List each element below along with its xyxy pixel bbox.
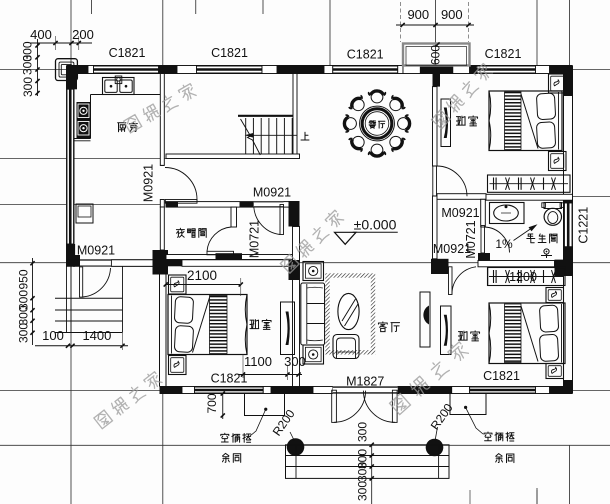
svg-text:1100: 1100 xyxy=(244,354,272,369)
sofa end table south xyxy=(303,345,324,364)
AC board left xyxy=(245,394,285,416)
dresser BR xyxy=(441,306,452,355)
kitchen right wall lower stub xyxy=(160,200,164,208)
door M1827 double entry xyxy=(332,390,337,422)
wall black segment top 158.5-177 xyxy=(159,66,178,74)
bedroom-BR top wall black E xyxy=(555,260,573,276)
wall pad bottom 451.7-469.6 xyxy=(452,387,470,394)
svg-text:M0721: M0721 xyxy=(248,220,262,258)
dim 100/1400 bottom-left xyxy=(35,345,128,347)
svg-text:300: 300 xyxy=(21,77,35,97)
TV cabinet living xyxy=(420,292,430,347)
closet BR xyxy=(488,268,566,286)
svg-text:900: 900 xyxy=(441,7,463,22)
svg-text:C1821: C1821 xyxy=(485,47,522,61)
kitchen stove xyxy=(77,102,91,139)
door M0721 bathroom xyxy=(481,226,485,254)
svg-text:C1821: C1821 xyxy=(109,46,146,60)
entry porch steps xyxy=(286,445,450,479)
label yimaojian (cloakroom) xyxy=(176,228,184,237)
label weishengjian (bathroom) xyxy=(527,234,535,243)
svg-text:300: 300 xyxy=(17,323,31,343)
door M1827 threshold lines xyxy=(333,387,398,394)
rain pipe R200 left xyxy=(287,438,305,456)
svg-text:400: 400 xyxy=(30,27,52,42)
window C1821 kitchen top xyxy=(94,66,159,74)
wall pad top 262-277 xyxy=(262,66,277,74)
svg-text:300: 300 xyxy=(356,481,370,501)
wall hollow 111.4-155 side xyxy=(111,260,155,267)
bathroom left wall upper xyxy=(481,199,486,227)
svg-text:M1827: M1827 xyxy=(346,375,384,389)
svg-text:600: 600 xyxy=(429,45,443,65)
nightstand BR-N xyxy=(546,288,564,303)
grid line vertical x=569.5 xyxy=(569,0,571,66)
svg-text:±0.000: ±0.000 xyxy=(354,217,397,233)
grid line vertical x=71 xyxy=(70,0,72,504)
outdoor steps left side (950/300 steps) xyxy=(66,266,68,332)
label woshi BL xyxy=(250,320,259,329)
svg-text:900: 900 xyxy=(407,7,429,22)
wall black segment top 469.5-477 xyxy=(470,66,478,74)
label kongtiaoban right xyxy=(484,432,492,441)
svg-text:M0921: M0921 xyxy=(253,186,291,200)
cloakroom top wall black 239.5-253.8 xyxy=(240,202,254,208)
wall black T-column at bay xyxy=(420,66,453,74)
coffee table oval xyxy=(338,293,359,329)
stairs up arrow xyxy=(252,134,297,136)
bedroom-BL left wall xyxy=(159,266,161,386)
grid line horizontal F y=445.3 xyxy=(0,444,610,446)
kitchen counter edge xyxy=(91,94,161,96)
svg-text:200: 200 xyxy=(72,27,94,42)
wall black bottom 159.5-182 xyxy=(160,387,183,394)
dim 900/900 top bay xyxy=(396,24,474,26)
svg-text:2100: 2100 xyxy=(187,268,217,283)
bedroom-BL top wall hollow 182-299.5 xyxy=(182,260,300,267)
dining-bedroom wall x=432.5-437 xyxy=(433,87,438,166)
window C1821 bedroom-BR bottom xyxy=(470,387,536,394)
stairs break line xyxy=(241,119,261,155)
svg-text:M0721: M0721 xyxy=(464,220,478,258)
sofa end table north xyxy=(303,262,324,281)
window left wall kitchen xyxy=(67,89,75,244)
rug with hatched border xyxy=(328,276,374,353)
nightstand TR-N xyxy=(549,74,567,93)
svg-text:1400: 1400 xyxy=(82,328,111,343)
wall black segment top 277-324 xyxy=(277,66,324,74)
bathroom top wall xyxy=(486,194,573,200)
right exterior wall band outline xyxy=(563,74,565,394)
label yutong left xyxy=(223,453,230,462)
porch dim 300x4 xyxy=(371,445,373,504)
wall pad top 535.5-549.5 xyxy=(536,66,550,74)
wall black corner top-right xyxy=(550,66,573,74)
wall black pier left 244-267 xyxy=(67,244,76,266)
grid line vertical x=435.5 xyxy=(435,0,437,66)
bottom exterior wall band outline xyxy=(160,386,573,388)
label canting (dining) xyxy=(369,121,376,128)
svg-text:300: 300 xyxy=(17,305,31,325)
bay dim tick xyxy=(435,42,439,46)
bathroom toilet xyxy=(544,203,562,209)
window C1221 bathroom right wall xyxy=(564,203,573,247)
door M0921 hall xyxy=(280,205,284,235)
bottom edge tick stubs xyxy=(469,490,471,504)
bedroom-TR bottom wall xyxy=(437,194,486,200)
side door M0921 threshold xyxy=(80,260,111,267)
sofa 3-seat xyxy=(301,283,325,345)
closet BR dim 1200 xyxy=(489,276,564,278)
wall black right 194-203 xyxy=(564,194,573,203)
cloakroom left wall xyxy=(160,207,164,250)
wall black right 66-96 xyxy=(564,74,573,97)
grid line vertical x=330 xyxy=(329,0,331,66)
label chufang (kitchen) xyxy=(118,123,126,132)
watermark 4 xyxy=(93,370,163,429)
dim 300x3 left upper xyxy=(37,39,39,96)
grid line vertical x=537 xyxy=(536,0,538,66)
door M0721 cloakroom xyxy=(207,251,234,255)
door M0921 side entry xyxy=(80,267,83,297)
dim 400/200 top-left xyxy=(30,42,92,44)
wall pad bottom 182-194.5 xyxy=(182,387,195,394)
living west wall xyxy=(293,227,300,387)
bed BL xyxy=(168,295,247,355)
wall black bottom 397.75-451.7 xyxy=(398,387,452,394)
kitchen faucet xyxy=(115,76,122,84)
dim 2100 bedroom BL xyxy=(166,284,241,286)
dining table with 8 chairs xyxy=(360,106,395,141)
svg-text:950: 950 xyxy=(17,269,31,289)
closet TR xyxy=(488,175,571,192)
kitchen appliance (washer) xyxy=(76,204,93,223)
window C1821 dining top xyxy=(333,66,398,74)
left exterior wall band outline xyxy=(66,66,68,268)
label woshi TR xyxy=(456,116,465,125)
wall black side-door corner 66.5-80 xyxy=(67,260,81,267)
cloakroom top wall black 165.5-178 xyxy=(166,202,179,208)
label shang (up) xyxy=(301,132,309,140)
dresser TR xyxy=(441,99,451,147)
svg-text:1200: 1200 xyxy=(509,270,537,284)
wall pad top 324-332.75 xyxy=(324,66,333,74)
grid line horizontal C-left y=204.5 xyxy=(0,204,163,206)
door M0921 bedroom TR xyxy=(433,166,437,196)
watermark 2 xyxy=(431,62,493,129)
bay opening pad 452.8-469.5 xyxy=(453,66,470,74)
dim 1100/300 bedroom BL bottom xyxy=(238,374,302,376)
corner column top-left (black L) xyxy=(67,66,78,90)
hall column SE xyxy=(431,259,449,274)
door M0921 kitchen xyxy=(165,200,197,204)
dresser BL xyxy=(281,302,295,355)
dim 950/300x3 left lower xyxy=(32,258,34,345)
svg-text:100: 100 xyxy=(42,328,64,343)
window C1821 stairwell top xyxy=(197,66,263,74)
cloakroom top wall xyxy=(166,202,290,208)
grid line horizontal A y=69.5 xyxy=(0,69,610,71)
svg-text:M0921: M0921 xyxy=(441,206,479,220)
grid line vertical stub x=91.5 xyxy=(91,0,93,14)
cloakroom bottom wall black chunk xyxy=(216,253,243,259)
svg-text:C1221: C1221 xyxy=(577,207,591,244)
grid line horizontal E y=390.5 xyxy=(0,390,610,392)
cloakroom bottom wall xyxy=(166,255,300,260)
grid line horizontal D y=262.7 xyxy=(0,262,610,264)
wall pad bottom 263.25-271 xyxy=(263,387,271,394)
bed TR xyxy=(489,91,562,151)
wall black stub 168-182 xyxy=(168,258,182,266)
kitchen sink unit xyxy=(103,78,135,95)
grid line horizontal B y=158.5 xyxy=(0,158,166,160)
svg-text:300: 300 xyxy=(356,462,370,482)
corner column black L in callout xyxy=(67,66,88,73)
central column xyxy=(289,201,300,227)
bedroom-BR top wall xyxy=(478,261,555,267)
nightstand BL-N xyxy=(169,275,187,294)
wall pad top 397.75-403 xyxy=(398,66,403,74)
label woshi BR xyxy=(458,331,467,340)
floor drain xyxy=(544,249,549,254)
kitchen door M0921 opening jambs xyxy=(160,164,164,166)
bottom-left wall band y=260-266 outline xyxy=(67,259,169,261)
wall pad top 177-196.5 xyxy=(177,66,197,74)
extension line dashed x=400.5 xyxy=(400,2,402,42)
label kongtiaoban left xyxy=(221,433,229,442)
nightstand BL-S xyxy=(169,356,187,375)
watermark 1 xyxy=(123,82,197,133)
svg-text:C1821: C1821 xyxy=(483,369,520,383)
window C1821 bedroom top xyxy=(477,66,536,74)
kitchen right wall upper xyxy=(160,74,164,166)
armchair xyxy=(333,335,359,359)
svg-text:M0921: M0921 xyxy=(77,244,115,258)
nightstand TR-S xyxy=(549,152,567,171)
bathroom left wall black bottom xyxy=(478,253,490,261)
nightstand BR-S xyxy=(546,364,564,379)
svg-text:C1821: C1821 xyxy=(347,48,384,62)
bathroom sink xyxy=(490,203,525,224)
svg-text:300: 300 xyxy=(356,422,370,442)
stairwell right wall xyxy=(293,74,297,155)
svg-text:C1821: C1821 xyxy=(211,46,248,60)
extension line dashed x=468.5 xyxy=(468,2,470,42)
AC board right xyxy=(450,394,486,415)
grid line horizontal C-right y=196.5 xyxy=(573,196,610,198)
stairwell bottom wall xyxy=(166,154,300,159)
svg-text:1%: 1% xyxy=(495,237,513,251)
svg-text:C1821: C1821 xyxy=(211,372,248,386)
bay opening pad 403-420.3 xyxy=(403,66,420,74)
cloakroom right wall upper xyxy=(231,207,237,227)
window C1821 bedroom-BL bottom xyxy=(195,387,264,394)
wall pad top 88-93.5 xyxy=(88,66,94,74)
label keting (living) xyxy=(378,322,387,332)
door M0921 bedroom BR xyxy=(449,267,453,295)
grid line vertical stub x=195.75 xyxy=(195,0,197,14)
wall black right bottom corner xyxy=(564,380,573,394)
wall black bottom corner SE xyxy=(550,387,573,394)
grid line vertical stub x=263 xyxy=(262,0,264,14)
label yutong right xyxy=(496,454,503,463)
wall black right 246.7-264.5 xyxy=(564,247,573,265)
wall black segment top 67-88 xyxy=(67,66,89,74)
dim 700 AC left xyxy=(222,394,224,420)
svg-text:700: 700 xyxy=(205,393,219,413)
wall pad bottom 535.5-549.5 xyxy=(536,387,550,394)
bay window box top xyxy=(403,44,470,66)
top exterior wall band outline xyxy=(67,65,573,67)
watermark 3 xyxy=(280,209,345,274)
living west wall black 260-280 xyxy=(289,260,300,280)
hall door M0921 opening xyxy=(254,202,284,208)
stairs treads xyxy=(238,115,293,117)
wall black bottom 271-313 xyxy=(271,387,313,394)
watermark 5 xyxy=(389,340,469,415)
grid line vertical x=162.8 xyxy=(162,0,164,66)
column at grid (162,260) xyxy=(153,250,169,275)
bed BR xyxy=(489,303,565,364)
svg-text:300: 300 xyxy=(21,55,35,75)
rain pipe R200 right xyxy=(426,439,444,457)
svg-text:M0921: M0921 xyxy=(142,164,156,202)
wall pad bottom 313-332.75 xyxy=(313,387,333,394)
column detail callout nested squares xyxy=(56,59,78,81)
